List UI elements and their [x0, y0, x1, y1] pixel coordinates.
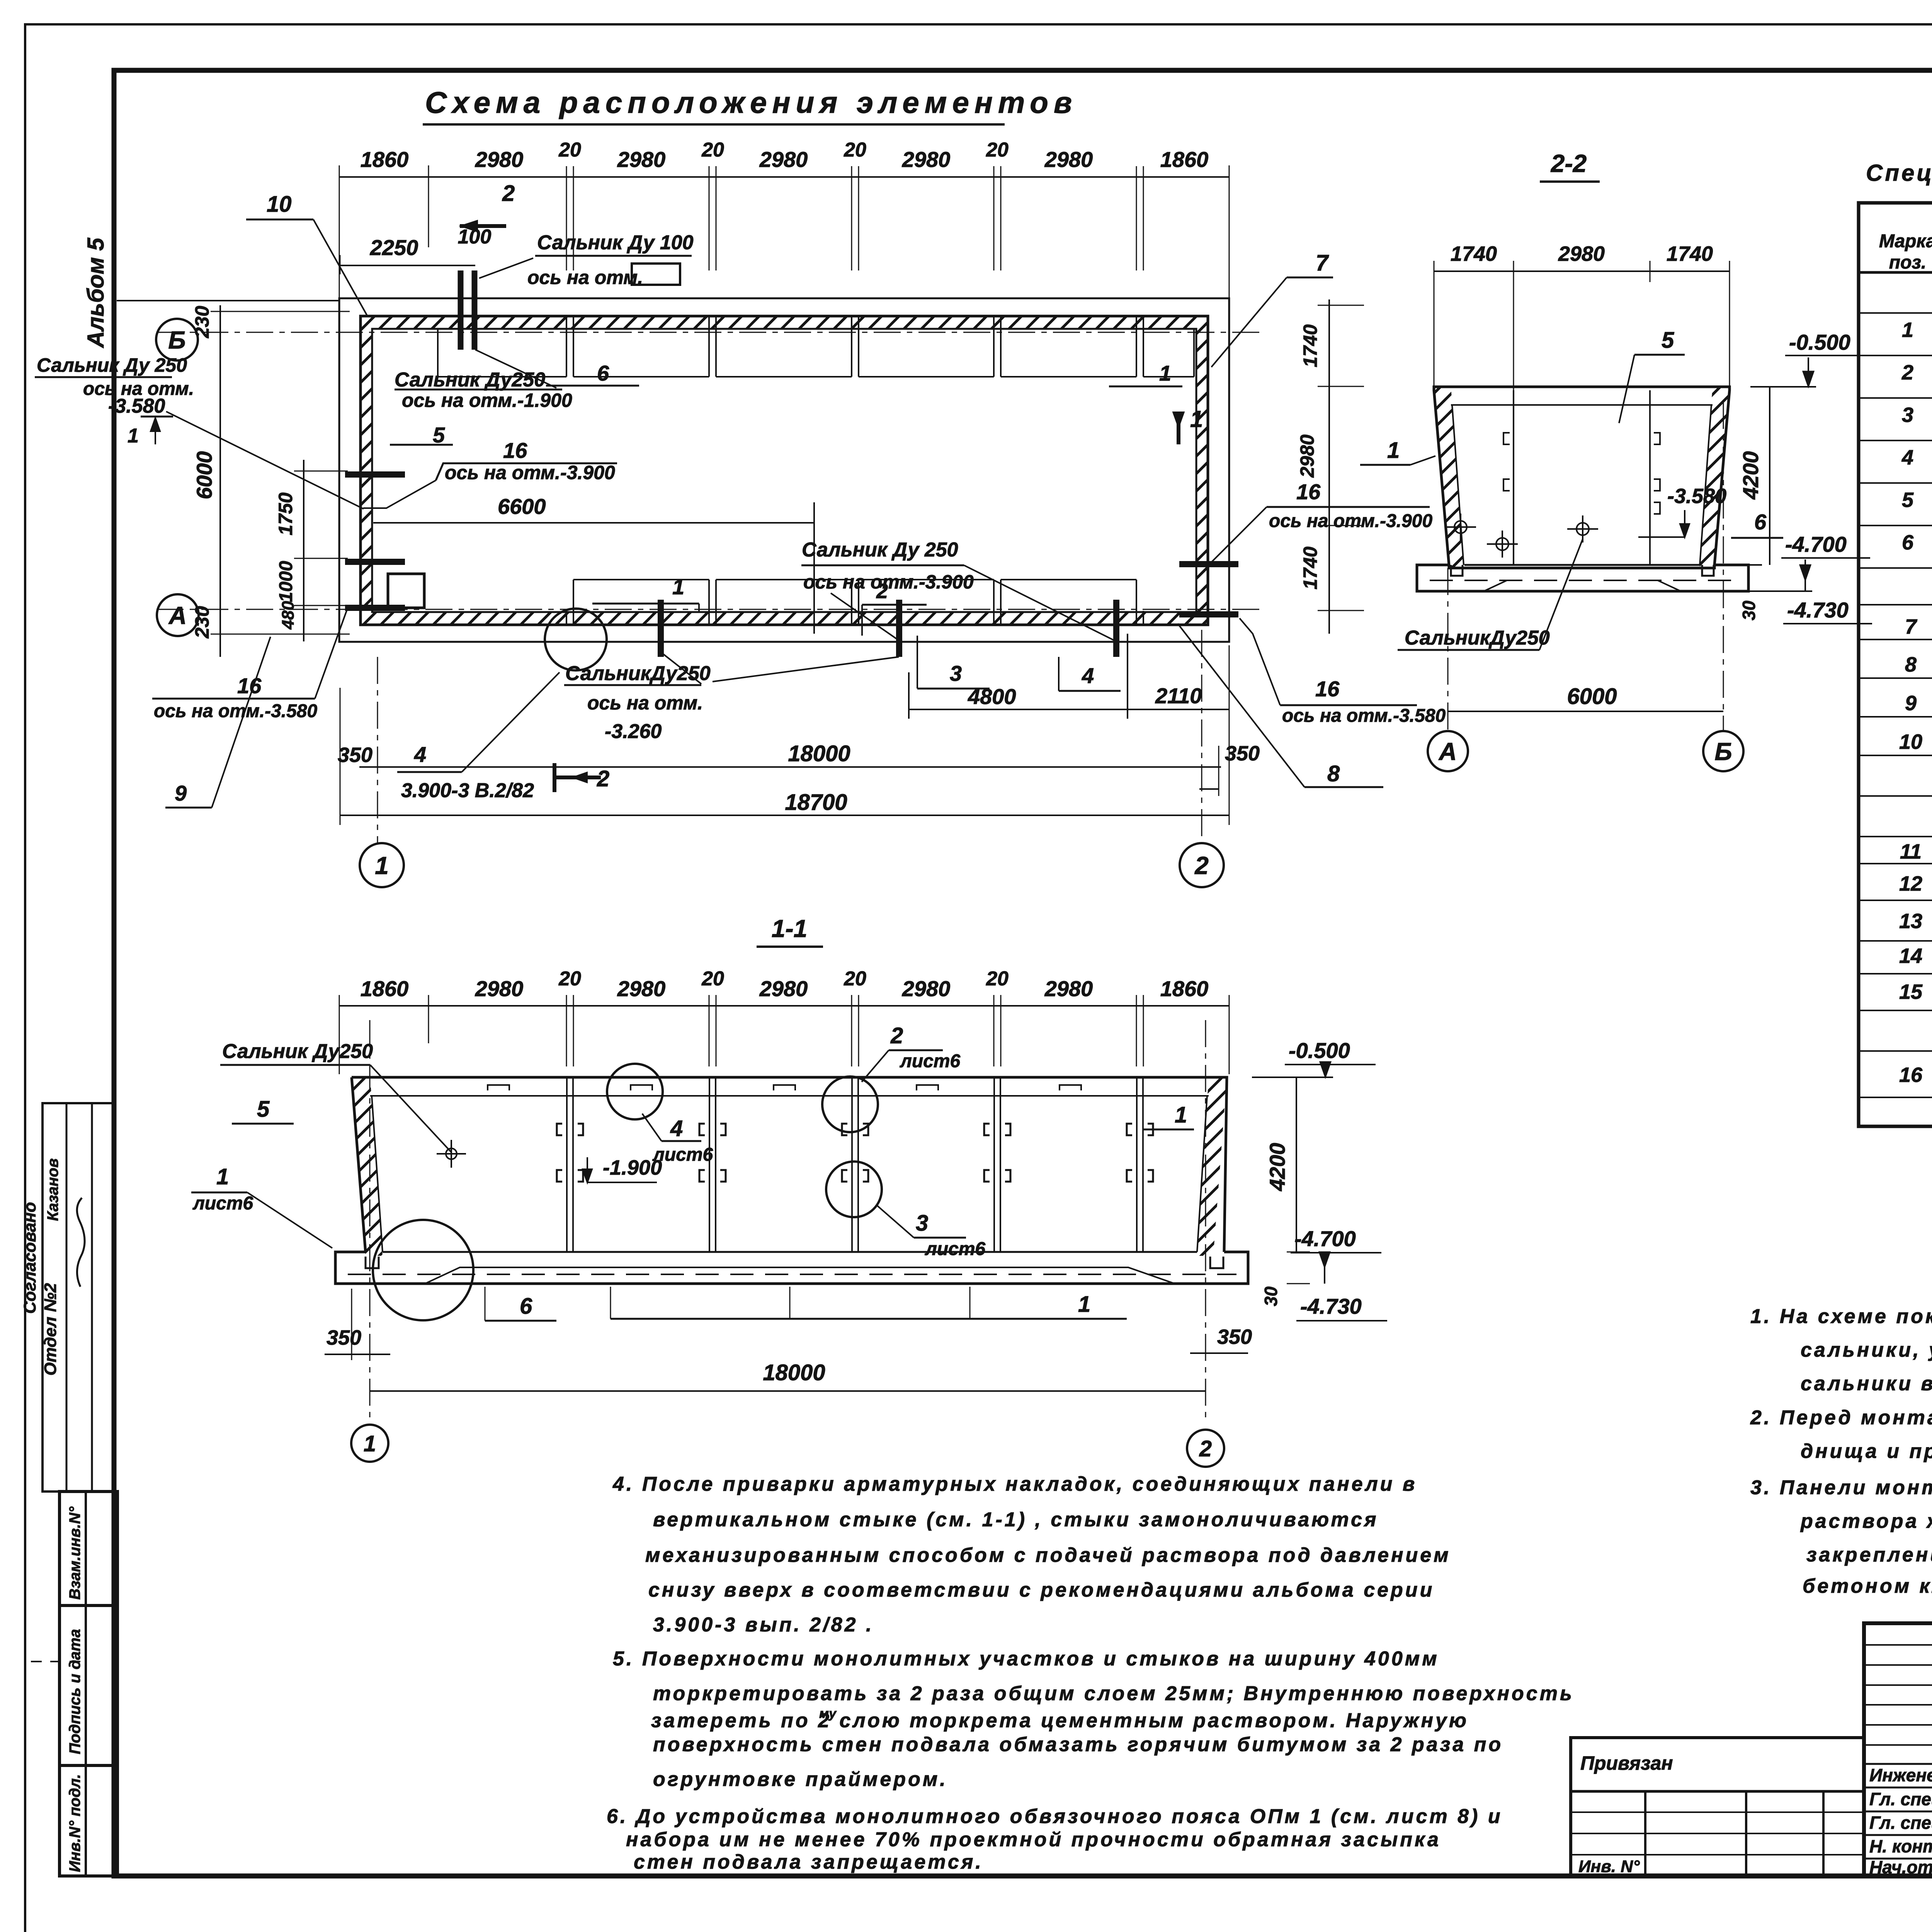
- svg-text:2980: 2980: [1044, 976, 1093, 1001]
- 6000 dim 2-2: [1448, 711, 1723, 712]
- svg-text:Привязан: Привязан: [1580, 1752, 1673, 1774]
- svg-text:ось на отм.-3.900: ось на отм.-3.900: [1269, 511, 1432, 531]
- svg-text:100: 100: [458, 226, 492, 248]
- svg-text:днища и промыть водой.: днища и промыть водой.: [1801, 1440, 1932, 1463]
- svg-text:1-1: 1-1: [772, 915, 808, 942]
- 1-1 floor dashed axis: [348, 1274, 1236, 1275]
- svg-text:2250: 2250: [370, 235, 418, 260]
- privyazan box: [1571, 1738, 1864, 1876]
- plan wall inner line: [372, 329, 1196, 612]
- 1-1 axis lines: [369, 1020, 371, 1422]
- svg-text:16: 16: [237, 673, 262, 698]
- svg-text:Б: Б: [1714, 738, 1732, 765]
- svg-text:5: 5: [1902, 488, 1914, 512]
- 2-2 dim chain top: [1434, 270, 1730, 272]
- left dim chain 230/6000/230: [219, 305, 221, 657]
- svg-text:6: 6: [520, 1294, 532, 1319]
- svg-text:3.900-3 В.2/82: 3.900-3 В.2/82: [401, 779, 534, 802]
- svg-text:-0.500: -0.500: [1289, 1038, 1350, 1063]
- svg-text:4: 4: [414, 742, 426, 767]
- svg-text:Отдел №2: Отдел №2: [41, 1283, 60, 1376]
- svg-text:2110: 2110: [1155, 684, 1202, 708]
- svg-text:10: 10: [1899, 730, 1922, 753]
- svg-text:бетоном класса В 25.: бетоном класса В 25.: [1803, 1575, 1932, 1597]
- wall hatch bottom band: [361, 612, 1208, 625]
- detail circle on bottom wall joint: [545, 609, 607, 670]
- svg-text:2980: 2980: [759, 976, 808, 1001]
- axis circle 1 (plan): [360, 843, 404, 887]
- svg-text:1750: 1750: [275, 492, 296, 535]
- axis circle B (2-2): [1703, 731, 1743, 771]
- svg-text:14: 14: [1899, 944, 1922, 968]
- TITLE BLOCK: [1864, 1623, 1932, 1876]
- upper left stamp box: [43, 1103, 114, 1492]
- svg-text:1: 1: [216, 1164, 229, 1189]
- svg-text:4: 4: [1082, 663, 1094, 688]
- svg-text:9: 9: [175, 781, 187, 805]
- svg-text:6. До устройства монолитног: 6. До устройства монолитного обвязочного…: [607, 1805, 1503, 1828]
- svg-text:сальники, устанавливаемые в: сальники, устанавливаемые в монолитных у…: [1801, 1339, 1932, 1361]
- svg-text:-4.730: -4.730: [1787, 598, 1849, 622]
- svg-text:20: 20: [986, 968, 1009, 990]
- svg-text:3.900-3 вып. 2/82 .: 3.900-3 вып. 2/82 .: [653, 1614, 874, 1636]
- lower left stamp box: [60, 1492, 117, 1876]
- svg-text:1860: 1860: [361, 147, 409, 172]
- svg-text:2: 2: [890, 1023, 903, 1048]
- svg-text:1000: 1000: [276, 561, 296, 602]
- svg-text:ось на отм.-3.900: ось на отм.-3.900: [445, 462, 615, 483]
- svg-text:А: А: [1438, 738, 1457, 765]
- gland symbols in 2-2: [1454, 521, 1467, 533]
- svg-text:4200: 4200: [1738, 451, 1763, 500]
- svg-text:ось на отм.: ось на отм.: [587, 692, 703, 714]
- svg-text:3. Панели монтируются по: 3. Панели монтируются по свежеуложенному…: [1750, 1476, 1932, 1499]
- svg-text:затереть по 2 слою торк: затереть по 2 слою торкрета цементным ра…: [651, 1709, 1469, 1732]
- svg-text:1: 1: [1902, 318, 1913, 342]
- svg-text:сальники в панелях см, альб: сальники в панелях см, альбом КЖИ.: [1801, 1372, 1932, 1395]
- svg-text:Согласовано: Согласовано: [20, 1202, 39, 1314]
- svg-text:1740: 1740: [1299, 546, 1321, 589]
- svg-text:1: 1: [364, 1431, 376, 1456]
- svg-text:2: 2: [1901, 361, 1913, 384]
- svg-text:Подпись и дата: Подпись и дата: [66, 1629, 83, 1754]
- svg-text:3: 3: [916, 1211, 928, 1236]
- svg-text:350: 350: [1217, 1325, 1252, 1349]
- axis circle B: [156, 319, 198, 361]
- svg-text:1860: 1860: [361, 976, 409, 1001]
- wall hatch right band: [1196, 329, 1208, 612]
- svg-text:1: 1: [1159, 361, 1171, 385]
- svg-text:20: 20: [986, 139, 1009, 161]
- svg-text:1: 1: [128, 425, 139, 447]
- svg-text:Взам.инв.N°: Взам.инв.N°: [66, 1506, 83, 1600]
- svg-text:лист6: лист6: [192, 1193, 253, 1214]
- svg-text:механизированным способом с: механизированным способом с подачей раст…: [645, 1544, 1451, 1566]
- vertical 1740/2980/1740 chain left of 2-2: [1328, 299, 1330, 634]
- svg-text:торкретировать за 2 раза об: торкретировать за 2 раза общим слоем 25м…: [653, 1682, 1574, 1705]
- svg-text:-4.700: -4.700: [1294, 1226, 1356, 1251]
- svg-text:6600: 6600: [498, 494, 546, 519]
- svg-text:поз.: поз.: [1889, 252, 1926, 273]
- svg-text:2980: 2980: [759, 147, 808, 172]
- svg-text:18000: 18000: [763, 1360, 825, 1385]
- 4200 dim: [1769, 387, 1770, 565]
- gland bars right wall: [1179, 561, 1238, 567]
- svg-text:Сальник Ду 250: Сальник Ду 250: [802, 539, 958, 561]
- plan outer contour: [339, 298, 1229, 642]
- inner left dim chain 1750/1000/480: [303, 460, 304, 641]
- svg-text:6: 6: [1902, 531, 1914, 554]
- dim 2250 / 100: [340, 265, 475, 266]
- svg-text:6000: 6000: [1567, 684, 1617, 709]
- gland bars left wall: [345, 471, 405, 478]
- svg-text:20: 20: [701, 968, 724, 990]
- svg-text:ось на отм.-3.900: ось на отм.-3.900: [803, 571, 974, 593]
- 1-1 panel joints: [566, 1077, 568, 1252]
- axis vertical lines 1,2: [377, 657, 378, 844]
- svg-text:230: 230: [191, 606, 213, 639]
- 1-1 left wall hatch: [352, 1077, 383, 1256]
- svg-text:5: 5: [257, 1097, 270, 1122]
- svg-text:вертикальном стыке (см. 1-1): вертикальном стыке (см. 1-1) , стыки зам…: [653, 1509, 1379, 1531]
- svg-text:8: 8: [1327, 761, 1340, 786]
- svg-text:2-2: 2-2: [1551, 150, 1587, 177]
- bottom dim 18000: [359, 766, 1221, 768]
- axis circle 1 (1-1 bottom): [351, 1425, 388, 1462]
- joint clips 2-2: [1503, 433, 1510, 444]
- svg-text:Гл. спец.: Гл. спец.: [1869, 1789, 1932, 1809]
- svg-text:Спецификация к схеме располо: Спецификация к схеме расположения стен п…: [1866, 160, 1932, 186]
- svg-text:-3.580: -3.580: [108, 395, 165, 417]
- svg-text:1: 1: [1078, 1292, 1090, 1317]
- svg-text:7: 7: [1316, 250, 1329, 276]
- wall hatch top band: [361, 316, 1208, 329]
- svg-text:Схема расположения элементов: Схема расположения элементов: [425, 85, 1077, 119]
- svg-text:1860: 1860: [1160, 976, 1209, 1001]
- svg-text:350: 350: [338, 743, 372, 767]
- 1-1 detail circles: [373, 1220, 473, 1320]
- bottom dim 18700: [340, 815, 1229, 816]
- gland D100 double bars top: [458, 270, 464, 350]
- svg-text:3: 3: [950, 661, 962, 685]
- svg-text:А: А: [168, 602, 187, 629]
- svg-text:16: 16: [503, 438, 527, 463]
- svg-text:снизу вверх в соответствии: снизу вверх в соответствии с рекомендаци…: [648, 1579, 1434, 1601]
- 2-2 panel joints: [1513, 390, 1514, 565]
- small dashes left: [31, 1661, 89, 1662]
- svg-text:20: 20: [701, 139, 724, 161]
- sump square: [388, 574, 424, 608]
- svg-text:поверхность стен подвала об: поверхность стен подвала обмазать горячи…: [653, 1733, 1503, 1756]
- svg-text:раствора жесткой консистен: раствора жесткой консистенции. После выв…: [1800, 1510, 1932, 1532]
- svg-text:12: 12: [1899, 872, 1922, 895]
- svg-text:1. На схеме показана привяз: 1. На схеме показана привязка всех сальн…: [1750, 1305, 1932, 1328]
- svg-text:16: 16: [1315, 677, 1340, 701]
- 2-2 floor dashed line: [1430, 580, 1735, 581]
- svg-text:20: 20: [844, 139, 866, 161]
- svg-text:ось на отм.: ось на отм.: [527, 267, 643, 288]
- svg-text:2980: 2980: [475, 147, 524, 172]
- svg-text:7: 7: [1905, 615, 1918, 638]
- svg-text:6000: 6000: [192, 451, 216, 500]
- svg-text:набора им не менее 70% пр: набора им не менее 70% проектной прочнос…: [626, 1828, 1441, 1851]
- svg-text:лист6: лист6: [900, 1051, 961, 1071]
- dim 4800 / 2110 below plan right: [909, 709, 1229, 710]
- svg-text:16: 16: [1899, 1063, 1923, 1087]
- svg-text:Инв.N° подл.: Инв.N° подл.: [66, 1774, 83, 1872]
- 2-2 wall inner lines: [1451, 404, 1713, 406]
- 2-2 right wall hatch: [1700, 387, 1730, 568]
- panel outlines inside top wall: [438, 376, 566, 378]
- svg-text:му: му: [819, 1706, 837, 1721]
- svg-text:2: 2: [1194, 852, 1209, 879]
- svg-text:-4.730: -4.730: [1300, 1294, 1362, 1318]
- svg-text:Гл. спец.: Гл. спец.: [1869, 1813, 1932, 1833]
- svg-text:1: 1: [1190, 406, 1203, 432]
- svg-text:2980: 2980: [617, 976, 666, 1001]
- joint clip plates: [557, 1124, 583, 1135]
- svg-text:1: 1: [1387, 438, 1400, 463]
- top dim chain: [339, 176, 1229, 178]
- floor recesses: [1451, 565, 1463, 576]
- svg-text:ось на отм.-1.900: ось на отм.-1.900: [402, 389, 572, 411]
- svg-text:2980: 2980: [902, 147, 951, 172]
- svg-text:6: 6: [1754, 510, 1767, 534]
- plan wall outer line: [361, 316, 1208, 625]
- svg-text:2980: 2980: [617, 147, 666, 172]
- svg-text:11: 11: [1900, 840, 1922, 863]
- svg-text:Казанов: Казанов: [44, 1158, 61, 1221]
- svg-text:1: 1: [672, 575, 684, 599]
- svg-text:1740: 1740: [1451, 242, 1497, 265]
- svg-text:Альбом 5: Альбом 5: [83, 237, 109, 349]
- svg-text:8: 8: [1905, 653, 1917, 676]
- 1-1 dim 18000: [370, 1390, 1206, 1392]
- 1-1 floor slope lines: [425, 1267, 1175, 1284]
- svg-text:2. Перед монтажом панелей: 2. Перед монтажом панелей тщательно очис…: [1750, 1406, 1932, 1429]
- svg-text:2980: 2980: [1296, 434, 1318, 478]
- axis lines 2-2: [1447, 568, 1449, 731]
- 2-2 left wall hatch: [1434, 387, 1464, 568]
- 1-1 right wall hatch: [1197, 1077, 1227, 1256]
- svg-text:Сальник Ду250: Сальник Ду250: [222, 1040, 373, 1063]
- svg-text:20: 20: [558, 139, 581, 161]
- svg-text:2: 2: [502, 181, 515, 206]
- svg-text:-4.700: -4.700: [1785, 532, 1847, 556]
- axis lines A and B horizontal: [156, 332, 1264, 333]
- svg-text:13: 13: [1899, 910, 1922, 933]
- svg-text:2980: 2980: [1558, 242, 1605, 265]
- svg-text:4200: 4200: [1265, 1143, 1289, 1192]
- svg-text:Н. контр.: Н. контр.: [1869, 1836, 1932, 1856]
- svg-text:3: 3: [1902, 403, 1913, 427]
- svg-text:закрепления панели стык: закрепления панели стык панели с днищем …: [1806, 1544, 1932, 1566]
- svg-text:230: 230: [191, 306, 213, 338]
- svg-text:9: 9: [1905, 692, 1917, 715]
- svg-text:1: 1: [1175, 1102, 1187, 1128]
- axis circle 2 (plan): [1180, 843, 1224, 887]
- svg-text:ось на отм.-3.580: ось на отм.-3.580: [1282, 706, 1446, 726]
- svg-text:огрунтовке праймером.: огрунтовке праймером.: [653, 1768, 948, 1791]
- wall hatch left band: [361, 329, 372, 612]
- svg-text:2980: 2980: [475, 976, 524, 1001]
- svg-text:16: 16: [1296, 480, 1321, 504]
- svg-text:2980: 2980: [902, 976, 951, 1001]
- svg-text:4: 4: [1901, 446, 1913, 469]
- svg-text:Нач.отд.: Нач.отд.: [1869, 1857, 1932, 1877]
- svg-text:СальникДу250: СальникДу250: [1405, 627, 1550, 649]
- svg-text:18000: 18000: [788, 741, 850, 766]
- svg-text:-3.260: -3.260: [605, 720, 662, 743]
- svg-text:Б: Б: [168, 326, 185, 354]
- svg-text:2980: 2980: [1044, 147, 1093, 172]
- svg-text:Инженер: Инженер: [1869, 1765, 1932, 1785]
- table rows: [1859, 312, 1932, 314]
- svg-text:Марка: Марка: [1879, 231, 1932, 252]
- svg-text:10: 10: [267, 192, 292, 217]
- svg-text:-1.900: -1.900: [603, 1156, 662, 1179]
- svg-text:1: 1: [375, 852, 389, 879]
- svg-text:стен подвала запрещается.: стен подвала запрещается.: [634, 1851, 983, 1873]
- svg-text:20: 20: [844, 968, 866, 990]
- svg-text:1740: 1740: [1667, 242, 1713, 265]
- axis circle A (2-2): [1428, 731, 1468, 771]
- panel outlines inside bottom wall: [573, 579, 709, 580]
- svg-text:ось на отм.-3.580: ось на отм.-3.580: [154, 701, 317, 721]
- svg-text:-3.580: -3.580: [1667, 485, 1726, 508]
- axis circle 2 (1-1 bottom): [1187, 1430, 1224, 1467]
- svg-text:-0.500: -0.500: [1789, 330, 1850, 354]
- gland symbol 1-1: [446, 1148, 457, 1159]
- gland bars bottom wall: [658, 600, 664, 657]
- svg-text:5: 5: [433, 423, 445, 447]
- svg-text:4: 4: [670, 1116, 683, 1141]
- svg-text:18700: 18700: [785, 790, 847, 815]
- svg-text:6: 6: [597, 361, 609, 385]
- svg-text:5. Поверхности монолитных: 5. Поверхности монолитных участков и сты…: [613, 1648, 1439, 1670]
- svg-text:15: 15: [1899, 980, 1923, 1003]
- svg-text:2: 2: [1199, 1436, 1212, 1461]
- svg-text:Инв. N°: Инв. N°: [1578, 1857, 1640, 1876]
- spec table frame: [1859, 203, 1932, 1126]
- svg-text:1860: 1860: [1160, 147, 1209, 172]
- svg-text:30: 30: [1739, 600, 1759, 621]
- top clip marks between joints: [488, 1085, 509, 1090]
- extension line frame to plan: [117, 300, 339, 301]
- svg-text:4. После приварки арматурны: 4. После приварки арматурных накладок, с…: [612, 1473, 1417, 1495]
- 2-2 floor slab: [1417, 565, 1748, 591]
- svg-text:5: 5: [1662, 328, 1674, 353]
- svg-text:30: 30: [1261, 1286, 1281, 1306]
- svg-text:1740: 1740: [1299, 324, 1321, 367]
- svg-text:350: 350: [327, 1326, 361, 1349]
- axis circle A: [157, 594, 199, 636]
- 1-1 floor: [335, 1252, 1248, 1284]
- svg-text:20: 20: [558, 968, 581, 990]
- svg-text:лист6: лист6: [925, 1239, 986, 1259]
- svg-text:350: 350: [1225, 742, 1260, 765]
- svg-text:Сальник Ду 100: Сальник Ду 100: [537, 231, 694, 254]
- panel joints top/bottom walls: [566, 316, 567, 330]
- 2-2 tank walls: [1434, 387, 1730, 568]
- 1-1 top dim chain: [339, 1005, 1229, 1007]
